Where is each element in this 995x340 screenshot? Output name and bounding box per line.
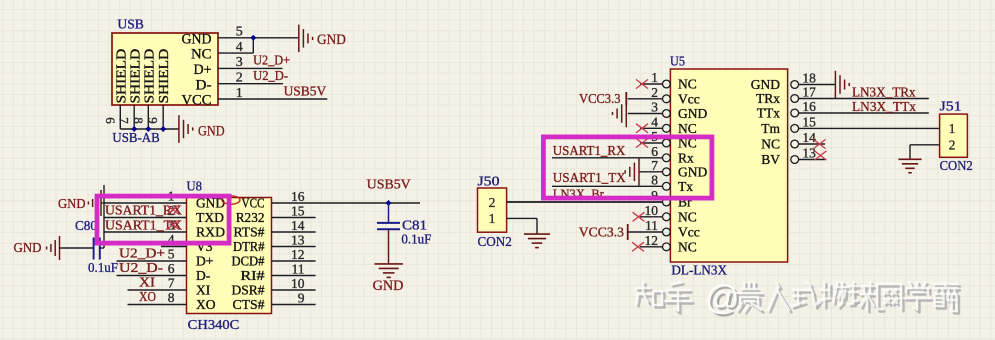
svg-text:0.1uF: 0.1uF xyxy=(88,260,118,275)
svg-text:10: 10 xyxy=(645,203,659,218)
svg-text:USB5V: USB5V xyxy=(284,83,327,98)
svg-text:12: 12 xyxy=(291,247,305,262)
svg-text:16: 16 xyxy=(291,189,305,204)
svg-text:11: 11 xyxy=(292,262,305,277)
svg-text:XI: XI xyxy=(196,283,211,298)
svg-text:14: 14 xyxy=(802,130,816,145)
svg-text:NC: NC xyxy=(678,239,697,254)
svg-text:4: 4 xyxy=(236,40,243,55)
svg-text:NC: NC xyxy=(678,77,697,92)
svg-text:CTS#: CTS# xyxy=(233,297,265,312)
svg-text:7: 7 xyxy=(168,275,175,290)
svg-text:15: 15 xyxy=(291,204,305,219)
svg-text:DTR#: DTR# xyxy=(233,239,265,254)
svg-text:18: 18 xyxy=(802,71,816,86)
svg-text:7: 7 xyxy=(651,158,658,173)
svg-text:U5: U5 xyxy=(670,55,685,70)
svg-text:GND: GND xyxy=(182,31,212,47)
svg-text:USART1_RX: USART1_RX xyxy=(553,143,626,158)
svg-text:1: 1 xyxy=(949,121,956,136)
svg-text:U2_D-: U2_D- xyxy=(253,68,288,83)
svg-text:TXD: TXD xyxy=(196,210,224,225)
svg-text:USART1_TX: USART1_TX xyxy=(553,170,626,185)
svg-text:0.1uF: 0.1uF xyxy=(401,232,431,247)
svg-text:8: 8 xyxy=(651,172,658,187)
svg-text:SHIELD: SHIELD xyxy=(156,49,171,104)
svg-text:16: 16 xyxy=(802,99,816,114)
svg-text:3: 3 xyxy=(651,100,658,115)
svg-text:@: @ xyxy=(705,279,740,317)
svg-text:Vcc: Vcc xyxy=(678,225,700,240)
svg-text:NC: NC xyxy=(678,209,697,224)
svg-text:USART1_TX: USART1_TX xyxy=(105,218,182,233)
svg-text:5: 5 xyxy=(236,25,243,40)
svg-text:Tx: Tx xyxy=(678,179,693,194)
svg-text:13: 13 xyxy=(291,233,305,248)
svg-text:DCD#: DCD# xyxy=(232,254,265,269)
svg-text:GND: GND xyxy=(678,164,707,179)
svg-text:7: 7 xyxy=(117,117,132,124)
svg-text:6: 6 xyxy=(103,117,118,124)
svg-text:VCC3.3: VCC3.3 xyxy=(579,92,621,107)
svg-text:SHIELD: SHIELD xyxy=(113,49,128,104)
svg-text:GND: GND xyxy=(58,197,86,212)
svg-text:CH340C: CH340C xyxy=(188,318,240,333)
svg-text:8: 8 xyxy=(168,290,175,305)
svg-text:GND: GND xyxy=(373,278,404,294)
svg-text:6: 6 xyxy=(168,261,175,276)
svg-text:2: 2 xyxy=(489,195,496,210)
svg-text:SHIELD: SHIELD xyxy=(142,49,157,104)
svg-text:NC: NC xyxy=(761,137,780,152)
svg-text:XO: XO xyxy=(196,297,216,312)
svg-text:SHIELD: SHIELD xyxy=(128,49,143,104)
svg-text:1: 1 xyxy=(489,211,496,226)
svg-text:NC: NC xyxy=(191,47,212,63)
svg-text:D+: D+ xyxy=(194,62,212,78)
svg-text:Vcc: Vcc xyxy=(678,91,700,106)
svg-text:10: 10 xyxy=(291,276,305,291)
svg-text:D+: D+ xyxy=(196,254,213,269)
svg-text:J51: J51 xyxy=(940,100,962,115)
svg-text:2: 2 xyxy=(651,85,658,100)
svg-text:DL-LN3X: DL-LN3X xyxy=(671,263,727,278)
svg-text:9: 9 xyxy=(298,291,305,306)
svg-text:DSR#: DSR# xyxy=(232,283,265,298)
svg-text:RXD: RXD xyxy=(196,225,225,240)
svg-text:TRx: TRx xyxy=(756,91,780,106)
svg-text:U2_D+: U2_D+ xyxy=(119,245,165,260)
svg-text:USB-AB: USB-AB xyxy=(112,130,159,145)
svg-text:VCC: VCC xyxy=(182,93,212,109)
svg-text:D-: D- xyxy=(196,268,211,283)
svg-text:BV: BV xyxy=(761,152,780,167)
svg-text:USART1_RX: USART1_RX xyxy=(105,202,182,217)
svg-text:14: 14 xyxy=(291,218,305,233)
svg-text:5: 5 xyxy=(168,246,175,261)
svg-text:USB5V: USB5V xyxy=(367,177,411,192)
svg-text:9: 9 xyxy=(146,117,161,124)
svg-text:GND: GND xyxy=(14,241,42,256)
svg-text:U2_D-: U2_D- xyxy=(119,260,164,275)
svg-text:8: 8 xyxy=(131,117,146,124)
svg-text:USB: USB xyxy=(117,18,143,33)
svg-text:VCC3.3: VCC3.3 xyxy=(579,226,624,241)
svg-text:RI#: RI# xyxy=(241,268,265,283)
svg-text:RTS#: RTS# xyxy=(234,225,265,240)
svg-text:GND: GND xyxy=(678,106,707,121)
svg-text:XO: XO xyxy=(139,289,156,304)
svg-text:C81: C81 xyxy=(402,218,427,233)
svg-text:15: 15 xyxy=(802,114,816,129)
svg-text:2: 2 xyxy=(949,138,956,153)
svg-text:9: 9 xyxy=(651,188,658,203)
svg-text:J50: J50 xyxy=(478,175,500,190)
svg-text:1: 1 xyxy=(651,70,658,85)
svg-text:Rx: Rx xyxy=(678,150,694,165)
svg-text:11: 11 xyxy=(645,218,658,233)
svg-text:U8: U8 xyxy=(187,180,203,195)
svg-text:C80: C80 xyxy=(75,218,97,233)
svg-text:6: 6 xyxy=(651,144,658,159)
svg-text:U2_D+: U2_D+ xyxy=(253,53,290,68)
svg-text:4: 4 xyxy=(651,114,658,129)
svg-text:CON2: CON2 xyxy=(478,235,512,250)
svg-text:GND: GND xyxy=(198,123,225,139)
svg-text:XI: XI xyxy=(139,275,156,290)
svg-text:17: 17 xyxy=(802,85,816,100)
svg-text:1: 1 xyxy=(236,86,243,101)
svg-text:12: 12 xyxy=(645,233,659,248)
svg-text:GND: GND xyxy=(751,77,780,92)
svg-text:LN3X_TTx: LN3X_TTx xyxy=(852,99,916,114)
svg-text:CON2: CON2 xyxy=(940,159,973,174)
svg-text:GND: GND xyxy=(317,32,346,48)
svg-text:R232: R232 xyxy=(236,210,265,225)
svg-text:D-: D- xyxy=(196,77,212,93)
svg-text:Tm: Tm xyxy=(761,121,780,136)
svg-text:VCC: VCC xyxy=(242,196,265,211)
svg-text:2: 2 xyxy=(236,71,243,86)
svg-text:TTx: TTx xyxy=(757,106,780,121)
svg-text:NC: NC xyxy=(678,121,697,136)
svg-text:LN3X_TRx: LN3X_TRx xyxy=(852,85,916,100)
svg-text:3: 3 xyxy=(236,55,243,70)
